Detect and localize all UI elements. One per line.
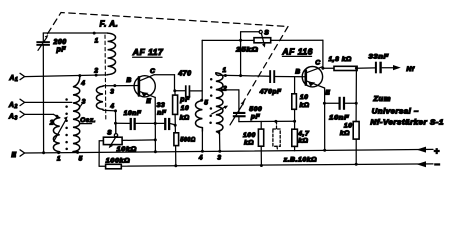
wire F.A. pin1 top — [43, 32, 107, 35]
svg-text:4: 4 — [109, 103, 114, 110]
resistor 1.8kOhm — [323, 66, 375, 70]
value label 10 kOhm — [180, 105, 190, 122]
coil IF secondary winding — [196, 101, 203, 131]
svg-text:2: 2 — [222, 86, 227, 93]
value label 200pF — [53, 39, 67, 53]
svg-text:10: 10 — [300, 94, 309, 101]
potentiometer 25kOhm with switch S — [241, 30, 271, 47]
capacitor 33nF (AF117 emitter) — [155, 118, 177, 130]
coil IF primary winding — [216, 73, 223, 134]
svg-text:kΩ: kΩ — [340, 130, 350, 137]
input terminal A3 — [8, 111, 25, 121]
wire A2 to Osz tap — [25, 101, 72, 103]
wire F.A. pin3 to AF117 base — [103, 84, 139, 87]
svg-text:kΩ: kΩ — [300, 102, 310, 109]
svg-text:25kΩ: 25kΩ — [235, 47, 259, 54]
wire pot right lead — [122, 139, 155, 142]
wire AF116 emitter riser — [323, 88, 326, 152]
svg-text:F. A.: F. A. — [100, 20, 119, 29]
svg-text:33: 33 — [157, 102, 166, 109]
svg-text:1: 1 — [15, 77, 18, 83]
svg-text:AF 117: AF 117 — [132, 47, 164, 57]
wire AGC node — [239, 120, 296, 123]
value label 500 pF — [249, 106, 262, 121]
svg-text:4: 4 — [80, 80, 85, 87]
svg-text:33nF: 33nF — [369, 53, 390, 60]
svg-text:560Ω: 560Ω — [180, 137, 196, 144]
svg-text:5: 5 — [204, 99, 208, 106]
svg-text:kΩ: kΩ — [298, 138, 308, 145]
svg-text:100: 100 — [243, 132, 256, 139]
svg-text:Nf-Verstärker S-1: Nf-Verstärker S-1 — [370, 120, 444, 127]
output arrow Nf — [393, 65, 401, 70]
transistor Q2 AF116 — [302, 67, 324, 89]
svg-text:A: A — [8, 102, 15, 109]
rail E / plus — [25, 147, 433, 155]
wire AF117 collector — [154, 75, 176, 93]
capacitor 33nF (output) — [375, 62, 394, 74]
svg-text:3: 3 — [82, 99, 86, 106]
input terminal A1 — [8, 73, 24, 83]
capacitor C 200pF variable — [36, 33, 50, 153]
value label 100 kOhm — [243, 132, 256, 147]
coil Osz left winding — [53, 116, 59, 152]
wire F.A. pin4 riser — [114, 111, 117, 134]
svg-text:10nF: 10nF — [124, 110, 142, 117]
wire IF pin3 lead — [218, 132, 221, 153]
svg-text:+: + — [434, 146, 440, 157]
svg-text:5: 5 — [79, 156, 83, 163]
svg-text:nF: nF — [157, 110, 167, 117]
svg-text:3: 3 — [217, 155, 221, 162]
core of F.A. (dashed) — [104, 35, 107, 120]
wire AF117 emitter riser — [154, 97, 157, 153]
resistor 560Ohm (AF117) — [174, 133, 179, 166]
svg-text:10: 10 — [181, 105, 190, 112]
resistor 10kOhm (AF116 base bias) — [292, 77, 297, 121]
label AF 116 — [281, 46, 313, 56]
svg-text:kΩ: kΩ — [244, 140, 254, 147]
wire A1 to F.A. pin2 — [25, 74, 108, 78]
wire F.A. pin4 — [103, 109, 117, 112]
svg-text:B: B — [126, 77, 131, 84]
svg-text:pF: pF — [250, 114, 261, 121]
svg-text:3: 3 — [15, 115, 18, 121]
switch S (on volume pot) — [107, 125, 118, 137]
svg-text:Nf: Nf — [406, 66, 414, 73]
wire IF tap2 to 500pF — [220, 88, 239, 91]
svg-text:2: 2 — [93, 68, 98, 75]
svg-text:z.B.10kΩ: z.B.10kΩ — [283, 157, 318, 164]
svg-text:1: 1 — [57, 156, 61, 163]
svg-text:Zum: Zum — [372, 96, 391, 103]
wire feedback top — [202, 39, 323, 42]
value label 470 pF — [177, 70, 191, 103]
svg-text:2: 2 — [14, 104, 18, 110]
capacitor 470pF (IF coupling) — [175, 85, 202, 97]
coil F.A. primary winding — [108, 33, 116, 75]
input terminal E — [11, 150, 24, 159]
svg-text:500: 500 — [249, 106, 262, 113]
tuning arrow IF — [212, 106, 228, 114]
wire riser output network — [355, 67, 358, 104]
svg-text:4: 4 — [198, 155, 203, 162]
value label 4,7kOhm — [297, 131, 310, 145]
svg-text:A: A — [8, 113, 15, 120]
resistor 100kOhm (AGC) — [106, 164, 122, 169]
svg-text:kΩ: kΩ — [180, 115, 190, 122]
svg-text:470pF: 470pF — [259, 89, 282, 96]
svg-text:200: 200 — [53, 39, 67, 46]
label Osz. — [80, 117, 96, 124]
potentiometer 10kOhm (volume) — [103, 136, 122, 148]
svg-text:S: S — [264, 30, 269, 37]
tuning arrow Osz — [54, 116, 68, 141]
svg-text:E: E — [325, 89, 330, 96]
svg-text:AF 116: AF 116 — [281, 46, 313, 56]
svg-text:470: 470 — [177, 70, 191, 77]
svg-text:B: B — [295, 68, 300, 75]
value label 10 kOhm — [300, 94, 310, 109]
value label 10 kOhm — [340, 122, 353, 137]
resistor z.B.10kOhm optional (dashed) — [273, 121, 280, 150]
svg-text:3: 3 — [110, 88, 114, 95]
resistor 100kOhm (bias) — [258, 122, 263, 166]
wire IF pin4 lead — [201, 131, 204, 153]
svg-text:Universal –: Universal – — [372, 108, 419, 115]
wire pot left lead to rail2 — [99, 141, 103, 167]
svg-text:1,8 kΩ: 1,8 kΩ — [329, 56, 352, 63]
svg-text:E: E — [146, 98, 151, 105]
coil Osz right winding — [73, 77, 80, 152]
label AF 117 — [132, 47, 164, 57]
wire IF pin1 to 470pF — [218, 74, 242, 77]
tap 3 Osz — [78, 103, 83, 110]
resistor 10kOhm (AF116 output) — [353, 103, 359, 164]
value label 33 nF — [157, 102, 167, 117]
wire AF116 collector to top — [321, 40, 324, 70]
input terminal A2 — [8, 99, 25, 110]
capacitor 10nF (AF117 base) — [116, 118, 156, 130]
svg-text:S: S — [107, 129, 112, 136]
note text Zum Universal Nf-Verstaerker — [370, 96, 444, 127]
wire riser IF pin1 to top wire — [240, 40, 242, 75]
wire A3 to Osz pin2 — [25, 114, 59, 117]
rail minus — [99, 161, 433, 167]
wire dashed tuning-gang line — [48, 13, 289, 103]
svg-text:1: 1 — [95, 38, 99, 45]
svg-text:4,7: 4,7 — [297, 131, 310, 138]
svg-text:pF: pF — [56, 46, 67, 53]
svg-text:A: A — [8, 75, 15, 82]
svg-text:pF: pF — [179, 97, 190, 104]
svg-text:C: C — [315, 60, 320, 67]
transformer IF: riser from top wire — [200, 40, 203, 101]
resistor 10kOhm (AF117 collector network) — [173, 91, 178, 133]
transistor Q1 AF117 — [134, 75, 155, 98]
capacitor 470pF (AF116 base) — [241, 70, 306, 83]
core of Osz (dots) — [65, 98, 68, 150]
coil F.A. secondary winding — [96, 86, 103, 109]
svg-text:10: 10 — [344, 122, 353, 129]
capacitor 500pF variable — [230, 90, 246, 125]
svg-text:10nF: 10nF — [329, 115, 349, 122]
svg-text:1: 1 — [223, 67, 227, 74]
svg-text:100kΩ: 100kΩ — [106, 158, 131, 165]
capacitor 10nF (AF116) — [324, 97, 357, 110]
svg-text:−: − — [434, 160, 440, 171]
core of IF (dots) — [209, 78, 212, 124]
svg-text:E: E — [11, 152, 16, 159]
resistor 4.7kOhm — [292, 121, 298, 151]
